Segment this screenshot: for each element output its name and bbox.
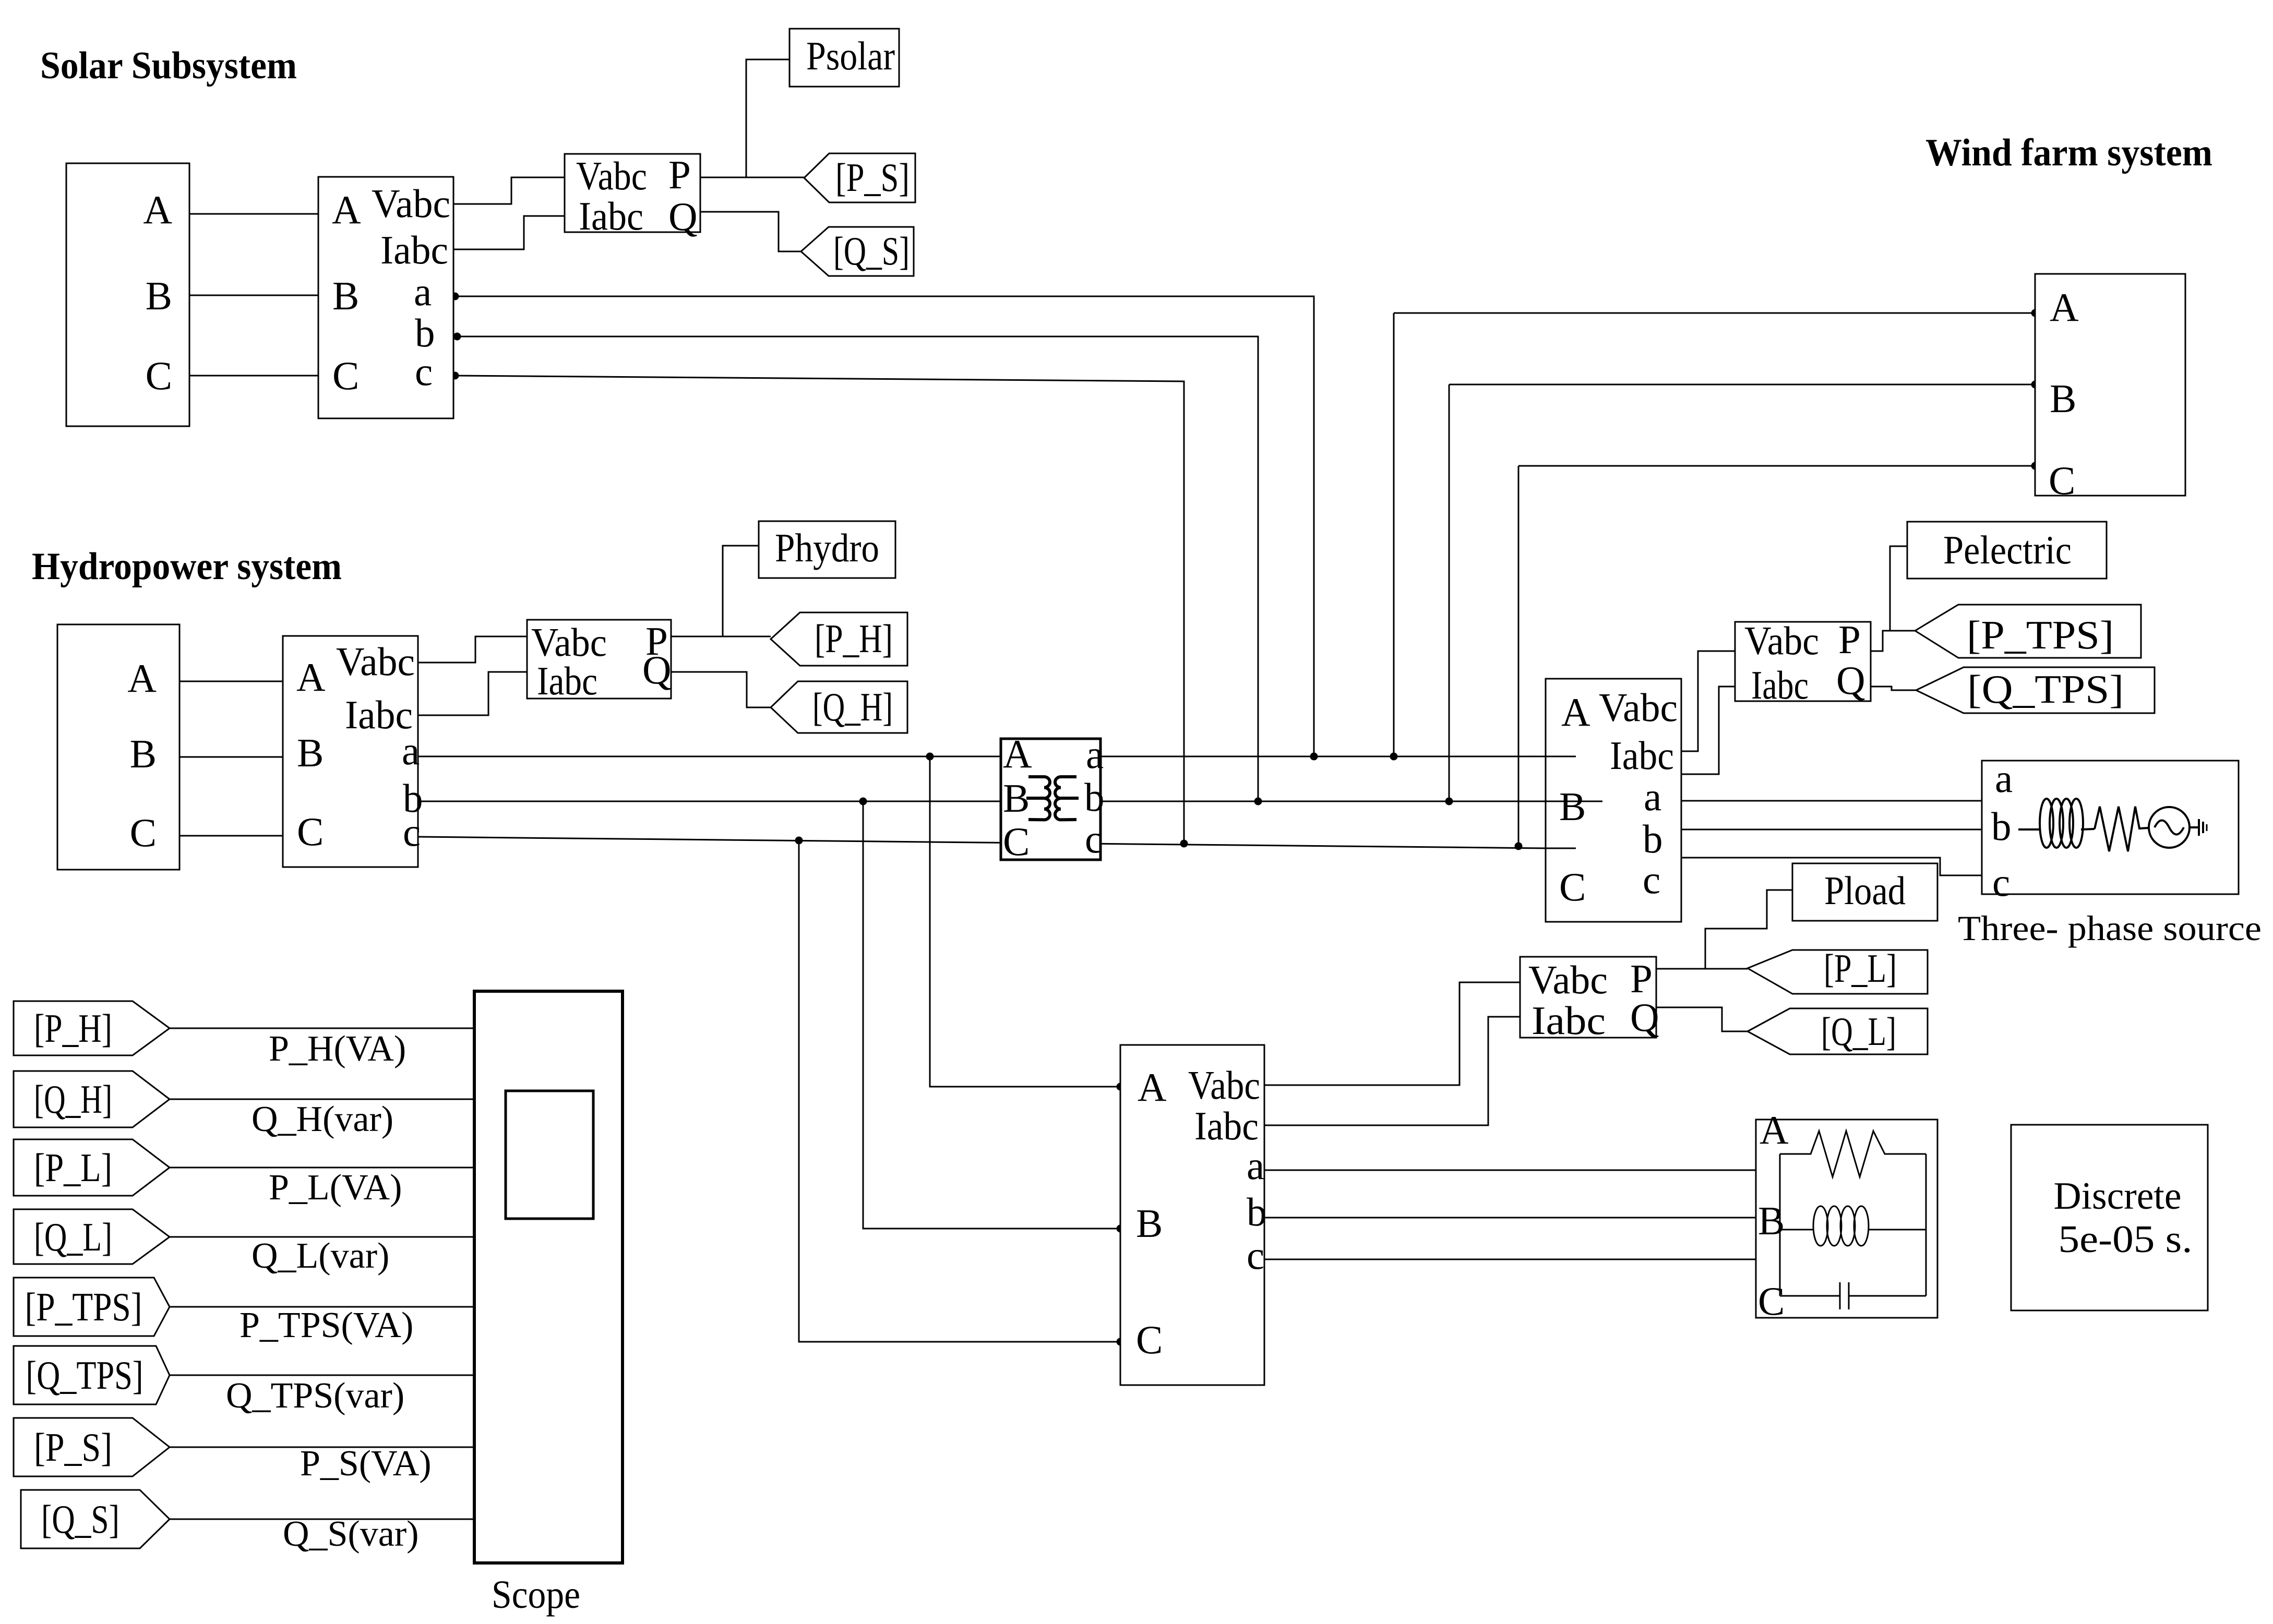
svg-text:a: a	[1995, 756, 2013, 801]
svg-text:A: A	[296, 655, 326, 700]
wire solar phase b bus	[453, 336, 1258, 801]
wire hydro source C to VI C	[180, 835, 283, 837]
wire bus a drop to load VI A	[930, 756, 1120, 1087]
wire hydro Iabc out to power meter	[418, 672, 527, 715]
svg-text:Vabc: Vabc	[1188, 1063, 1260, 1108]
svg-text:P_TPS(VA): P_TPS(VA)	[240, 1305, 413, 1345]
block: hydro three-phase V-I measurement	[283, 636, 418, 867]
goto tag [Q_L]	[1748, 1008, 1928, 1054]
wire TPS Iabc out to power meter	[1681, 687, 1735, 774]
svg-text:Pelectric: Pelectric	[1943, 527, 2072, 572]
svg-text:[Q_TPS]: [Q_TPS]	[1967, 667, 2124, 712]
node wind B port	[2031, 381, 2039, 389]
wire solar source B to VI B	[189, 295, 318, 296]
wire TPS c to source c	[1681, 858, 1982, 875]
node wind A joins bus a	[1390, 753, 1398, 761]
block: three-phase transformer	[1001, 739, 1100, 860]
node solar c port	[451, 372, 459, 380]
block: Pelectric display	[1907, 522, 2107, 579]
svg-text:[Q_S]: [Q_S]	[41, 1497, 119, 1542]
svg-text:Q: Q	[668, 194, 698, 239]
svg-text:c: c	[1992, 860, 2010, 905]
wire TPS Vabc out to power meter	[1681, 651, 1735, 751]
svg-text:Iabc: Iabc	[380, 227, 448, 272]
wire wind B to bus b	[1449, 384, 2035, 386]
wire bus phase c hydro to TPS	[418, 837, 1546, 848]
goto tag [Q_S]	[801, 227, 914, 276]
svg-text:B: B	[1758, 1198, 1785, 1243]
node solar c joins bus c	[1180, 840, 1188, 848]
scope screen	[506, 1091, 593, 1219]
svg-text:Vabc: Vabc	[1599, 685, 1678, 730]
block: load three-phase V-I measurement	[1120, 1045, 1264, 1385]
node bus b drop junction	[859, 798, 867, 805]
svg-text:C: C	[332, 353, 359, 398]
svg-text:[Q_TPS]: [Q_TPS]	[26, 1353, 143, 1398]
svg-text:Vabc: Vabc	[1528, 957, 1608, 1002]
block: hydro power measurement Vabc P Iabc Q	[527, 620, 671, 699]
wire [P_S] to scope	[170, 1447, 474, 1448]
goto tag [P_H]	[771, 612, 907, 666]
svg-text:B: B	[146, 273, 172, 318]
svg-text:[Q_H]: [Q_H]	[812, 684, 893, 729]
svg-text:C: C	[1559, 864, 1586, 909]
svg-text:C: C	[1136, 1317, 1163, 1362]
svg-text:B: B	[332, 273, 359, 318]
svg-text:Iabc: Iabc	[537, 658, 597, 703]
svg-text:b: b	[1084, 775, 1105, 820]
wire TPS a to source a	[1681, 800, 1982, 802]
svg-text:Q: Q	[642, 647, 672, 692]
svg-text:A: A	[127, 656, 157, 701]
svg-text:Iabc: Iabc	[1194, 1103, 1259, 1148]
wire [P_TPS] to scope	[170, 1306, 474, 1308]
wire bus c drop to load VI C	[799, 840, 1120, 1342]
goto tag [P_TPS]	[1915, 605, 2141, 658]
inductor Ls coil	[2040, 799, 2083, 848]
node bus a drop junction	[926, 753, 934, 761]
node solar b joins bus b	[1254, 798, 1262, 805]
from tag [P_S]	[14, 1418, 170, 1476]
wire load b to RLC load	[1264, 1217, 1780, 1219]
block: TPS power measurement Vabc P Iabc Q	[1735, 622, 1871, 701]
wire wind A to bus a	[1394, 312, 2035, 314]
node load VI B port	[1117, 1225, 1124, 1233]
svg-text:b: b	[1991, 804, 2012, 849]
wire solar phase c bus	[453, 376, 1184, 844]
svg-text:C: C	[1758, 1279, 1785, 1324]
svg-text:b: b	[1643, 816, 1663, 861]
svg-text:A: A	[1138, 1065, 1167, 1110]
wire [Q_L] to scope	[170, 1236, 474, 1238]
svg-text:Q_TPS(var): Q_TPS(var)	[226, 1376, 404, 1416]
svg-text:c: c	[1643, 857, 1660, 902]
wire load c to RLC load	[1264, 1259, 1780, 1260]
svg-text:C: C	[2049, 458, 2075, 503]
svg-text:Iabc: Iabc	[579, 194, 643, 238]
from tag [Q_H]	[14, 1071, 170, 1127]
wire TPS b to source b	[1681, 829, 1982, 831]
wire coil to resistor	[2081, 829, 2095, 829]
svg-text:Q: Q	[1836, 658, 1865, 703]
wire load Q to Q_L tag	[1656, 1007, 1748, 1031]
svg-text:[P_L]: [P_L]	[34, 1145, 112, 1190]
svg-text:Vabc: Vabc	[336, 639, 415, 684]
wire bus b drop to load VI B	[863, 801, 1120, 1229]
wire load Vabc out to power meter	[1264, 982, 1520, 1085]
svg-text:A: A	[2050, 285, 2079, 330]
block: Discrete 5e-05 s.	[2011, 1125, 2208, 1310]
svg-text:C: C	[130, 810, 157, 855]
svg-text:Iabc: Iabc	[1751, 663, 1809, 707]
wire hydro P to Phydro and P_H tag	[672, 636, 771, 637]
svg-text:[Q_L]: [Q_L]	[34, 1214, 112, 1259]
svg-text:A: A	[332, 187, 361, 232]
svg-text:a: a	[414, 269, 432, 314]
block: load power measurement Vabc P Iabc Q	[1520, 957, 1656, 1038]
svg-text:a: a	[1644, 774, 1661, 819]
node solar a joins bus a	[1310, 753, 1318, 761]
wire [Q_S] to scope	[170, 1519, 474, 1520]
wire solar Iabc out to power meter	[453, 216, 565, 249]
RLC load left rail	[1779, 1154, 1781, 1296]
svg-text:[P_TPS]: [P_TPS]	[1967, 612, 2114, 657]
node wind C joins bus c	[1515, 843, 1523, 850]
wire TPS P to Pelectric and P_TPS tag	[1871, 631, 1915, 651]
svg-text:Iabc: Iabc	[1532, 998, 1606, 1043]
block: solar three-phase V-I measurement	[318, 177, 453, 418]
node solar b port	[453, 333, 461, 341]
wire solar Vabc out to power meter	[453, 177, 565, 204]
svg-text:P_L(VA): P_L(VA)	[269, 1168, 402, 1208]
svg-text:Hydropower system: Hydropower system	[32, 545, 342, 588]
svg-text:B: B	[1003, 776, 1030, 821]
svg-text:Scope: Scope	[492, 1573, 580, 1617]
block: Phydro display	[759, 521, 895, 578]
from tag [Q_S]	[21, 1490, 170, 1548]
block: Pload display	[1792, 863, 1937, 921]
svg-text:Vabc: Vabc	[1744, 618, 1819, 663]
block: three-phase RLC load	[1756, 1120, 1937, 1318]
wire [P_L] to scope	[170, 1167, 474, 1169]
wire TPS Q to Q_TPS tag	[1871, 687, 1916, 690]
svg-text:[Q_H]: [Q_H]	[34, 1077, 112, 1122]
svg-text:a: a	[402, 728, 420, 773]
wire source b internal stub	[2018, 828, 2040, 831]
svg-text:C: C	[297, 809, 324, 854]
TPS VI internal port stubs	[1546, 756, 1576, 757]
wire bus phase b hydro to TPS	[418, 801, 1546, 802]
svg-text:A: A	[1003, 731, 1032, 776]
svg-text:[P_TPS]: [P_TPS]	[25, 1284, 142, 1329]
wire hydro Vabc out to power meter	[418, 636, 527, 663]
svg-text:b: b	[1247, 1189, 1267, 1234]
svg-text:5e-05 s.: 5e-05 s.	[2059, 1218, 2193, 1261]
svg-text:Q_L(var): Q_L(var)	[252, 1236, 389, 1276]
from tag [P_L]	[14, 1139, 170, 1196]
block: three-phase source	[1982, 761, 2239, 894]
from tag [P_TPS]	[14, 1278, 170, 1336]
block: hydropower source	[57, 624, 180, 870]
svg-text:A: A	[1561, 690, 1590, 735]
block: solar subsystem source	[66, 163, 189, 426]
RLC load right rail	[1925, 1154, 1927, 1296]
svg-text:A: A	[143, 187, 172, 232]
resistor branch	[1780, 1131, 1926, 1177]
svg-text:Q_H(var): Q_H(var)	[252, 1099, 393, 1139]
from tag [P_H]	[14, 1001, 170, 1055]
svg-text:Pload: Pload	[1824, 868, 1906, 913]
goto tag [P_L]	[1748, 950, 1928, 994]
svg-text:[Q_S]: [Q_S]	[833, 228, 910, 273]
block: solar power measurement Vabc P Iabc Q	[565, 154, 700, 232]
node wind B joins bus b	[1445, 798, 1453, 805]
block: Scope	[474, 991, 623, 1563]
wire hydro source A to VI A	[180, 681, 283, 682]
svg-text:Q: Q	[1630, 995, 1659, 1040]
svg-text:Vabc: Vabc	[576, 153, 647, 198]
svg-text:Q_S(var): Q_S(var)	[283, 1514, 418, 1554]
svg-text:[P_H]: [P_H]	[815, 616, 893, 661]
svg-text:[P_L]: [P_L]	[1824, 946, 1897, 991]
transformer secondary winding	[1055, 777, 1079, 820]
node load VI A port	[1117, 1083, 1124, 1091]
svg-text:[P_S]: [P_S]	[34, 1425, 112, 1470]
svg-text:Psolar: Psolar	[806, 33, 895, 78]
svg-text:Phydro: Phydro	[775, 525, 879, 570]
svg-text:C: C	[146, 353, 172, 398]
svg-text:P_H(VA): P_H(VA)	[269, 1029, 406, 1069]
svg-text:B: B	[1559, 784, 1586, 829]
wire solar source A to VI A	[189, 213, 318, 215]
goto tag [Q_H]	[771, 681, 907, 733]
svg-text:Vabc: Vabc	[372, 181, 450, 226]
node load VI C port	[1117, 1338, 1124, 1346]
wire solar Q to Q_S tag	[700, 212, 801, 251]
wire [Q_TPS] to scope	[170, 1375, 474, 1376]
wire source to ground	[2190, 826, 2199, 828]
wire solar P to Psolar and P_S tag	[700, 177, 804, 178]
wire solar phase a bus	[453, 296, 1314, 756]
node wind A port	[2031, 309, 2039, 317]
block: TPS three-phase V-I measurement	[1546, 679, 1681, 922]
AC voltage source circle	[2149, 807, 2190, 848]
wire hydro Q to Q_H tag	[672, 672, 771, 707]
goto tag [P_S]	[804, 153, 915, 202]
wire bus phase a hydro to TPS	[418, 756, 1546, 757]
wire [Q_H] to scope	[170, 1099, 474, 1100]
svg-text:[Q_L]: [Q_L]	[1821, 1009, 1896, 1054]
svg-text:c: c	[1247, 1233, 1264, 1278]
goto tag [Q_TPS]	[1916, 667, 2155, 713]
svg-text:B: B	[130, 731, 157, 776]
svg-text:Wind farm system: Wind farm system	[1925, 131, 2212, 174]
svg-text:B: B	[2050, 376, 2076, 421]
wire [P_H] to scope	[170, 1028, 474, 1029]
svg-text:P: P	[668, 152, 691, 197]
svg-text:Three- phase source: Three- phase source	[1958, 908, 2262, 948]
wire solar source C to VI C	[189, 375, 318, 377]
node bus c drop junction	[795, 837, 803, 845]
wire load a to RLC load	[1264, 1170, 1780, 1171]
svg-text:[P_S]: [P_S]	[835, 155, 910, 200]
from tag [Q_TPS]	[14, 1346, 170, 1404]
wire wind C to bus c	[1518, 465, 2035, 467]
svg-text:Solar Subsystem: Solar Subsystem	[40, 44, 297, 87]
from tag [Q_L]	[14, 1209, 170, 1264]
svg-text:c: c	[415, 349, 433, 394]
svg-text:c: c	[403, 810, 421, 855]
svg-text:B: B	[297, 730, 324, 775]
svg-text:a: a	[1247, 1143, 1264, 1188]
svg-text:P_S(VA): P_S(VA)	[300, 1443, 432, 1484]
wire load P to Pload and P_L tag	[1656, 968, 1748, 970]
node solar a port	[451, 293, 459, 300]
svg-text:Discrete: Discrete	[2054, 1175, 2182, 1218]
ground symbol	[2198, 819, 2200, 836]
transformer primary winding	[1026, 777, 1050, 820]
capacitor branch	[1780, 1295, 1840, 1297]
svg-text:a: a	[1086, 732, 1104, 777]
svg-text:Iabc: Iabc	[1610, 733, 1674, 778]
wire load Iabc out to power meter	[1264, 1017, 1520, 1125]
svg-text:c: c	[1085, 816, 1103, 861]
block: wind farm source	[2035, 274, 2185, 496]
svg-text:[P_H]: [P_H]	[34, 1006, 112, 1051]
node wind C port	[2031, 462, 2039, 470]
inductor branch	[1780, 1229, 1813, 1231]
block: Psolar display	[789, 29, 899, 87]
resistor Rs zigzag	[2095, 807, 2149, 851]
svg-text:C: C	[1003, 819, 1030, 864]
svg-text:A: A	[1760, 1108, 1789, 1152]
svg-text:P: P	[1838, 617, 1861, 662]
svg-text:B: B	[1136, 1201, 1163, 1246]
wire hydro source B to VI B	[180, 756, 283, 758]
